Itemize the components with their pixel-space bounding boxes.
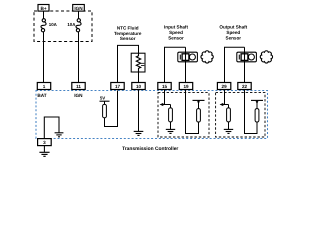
wire NTC to pin 10 — [138, 72, 140, 83]
pin 15 — [158, 83, 171, 90]
wire pin 10 to internal ground — [138, 90, 140, 132]
pin 1 — [37, 83, 50, 90]
speed sensor body — [178, 52, 198, 62]
wire IGN to fuse F2 — [78, 11, 80, 19]
fuse box (dashed) — [34, 11, 92, 42]
NTC thermistor zigzag — [136, 53, 140, 72]
pin 17 — [111, 83, 124, 90]
internal rail T-bar with arrow (output) — [251, 99, 263, 101]
label NTC Fluid Temperature Sensor — [114, 25, 142, 41]
pin 22 — [238, 83, 251, 90]
wire pin into controller (input -) — [186, 90, 199, 134]
wire resistor to ground (input) — [170, 122, 172, 129]
wire sensor element down to pin — [244, 47, 246, 82]
wire sensor element down to pin — [185, 47, 187, 82]
wire pin into controller (output +) — [224, 90, 226, 105]
fuse F2 10A — [76, 19, 81, 32]
svg-text:10: 10 — [136, 84, 142, 89]
pin 11 — [72, 83, 85, 90]
svg-text:3: 3 — [43, 140, 46, 145]
wire tap to load resistor (input) — [170, 105, 172, 109]
internal rail T-bar with arrow (input) — [193, 99, 205, 101]
svg-text:Temperature: Temperature — [114, 31, 142, 36]
external chassis ground — [39, 152, 49, 156]
svg-text:Output Shaft: Output Shaft — [219, 25, 247, 30]
svg-text:29: 29 — [222, 84, 228, 89]
internal ground (pin 10) — [134, 131, 144, 135]
svg-text:19: 19 — [183, 84, 189, 89]
svg-text:IGN: IGN — [74, 6, 83, 11]
svg-text:10A: 10A — [49, 22, 58, 27]
wire pin into controller (input +) — [164, 90, 166, 105]
svg-text:B+: B+ — [40, 6, 46, 11]
svg-text:Sensor: Sensor — [226, 36, 242, 41]
NTC sensor body — [131, 53, 145, 72]
signal tap arrow (input) — [160, 104, 170, 106]
svg-text:22: 22 — [242, 84, 248, 89]
svg-text:BAT: BAT — [37, 93, 46, 98]
label Output Shaft Speed Sensor — [219, 25, 247, 41]
5V supply rail bar — [100, 100, 110, 102]
signal tap arrow (output) — [220, 104, 228, 106]
bias resistor (input) — [197, 109, 201, 122]
interface box output (dashed) — [216, 93, 265, 137]
svg-text:Input Shaft: Input Shaft — [164, 25, 188, 30]
NTC temperature marking — [141, 63, 144, 65]
internal ground (pin 3) — [55, 133, 64, 137]
wire pin 3 to external ground — [43, 146, 45, 152]
pin 10 — [132, 83, 145, 90]
reluctor gear — [260, 51, 272, 63]
pin 19 — [179, 83, 192, 90]
svg-text:Sensor: Sensor — [168, 36, 184, 41]
wire fuse F1 to pin 1 — [43, 32, 45, 83]
svg-text:1: 1 — [43, 84, 46, 89]
svg-text:15: 15 — [162, 84, 168, 89]
internal ground (output) — [224, 129, 233, 133]
pin 29 — [217, 83, 230, 90]
svg-text:Sensor: Sensor — [120, 36, 136, 41]
svg-text:Transmission Controller: Transmission Controller — [122, 146, 178, 152]
svg-text:5V: 5V — [100, 96, 105, 101]
internal ground (input) — [166, 129, 175, 133]
wire fuse F2 to pin 11 — [78, 32, 80, 83]
reluctor gear — [201, 51, 213, 63]
svg-text:10A: 10A — [67, 22, 76, 27]
svg-text:17: 17 — [115, 84, 121, 89]
svg-text:11: 11 — [76, 84, 81, 89]
pin 3 — [38, 139, 52, 146]
5V pull-up resistor — [103, 104, 107, 117]
label Input Shaft Speed Sensor — [164, 25, 188, 41]
load resistor (input) — [169, 108, 173, 122]
interface box input (dashed) — [158, 93, 209, 137]
wire 5V resistor to pin 17 — [105, 91, 118, 127]
bias resistor (output) — [255, 109, 259, 122]
speed sensor body — [237, 52, 257, 62]
svg-text:NTC Fluid: NTC Fluid — [117, 25, 139, 30]
wire 224.5 up over to sensor — [225, 47, 245, 82]
fuse F1 10A — [41, 19, 46, 32]
wire pin into controller (output -) — [245, 90, 258, 134]
load resistor (output) — [227, 108, 231, 122]
svg-text:Speed: Speed — [226, 30, 240, 35]
terminal B+ — [38, 5, 49, 12]
wire pin 17 up to NTC — [118, 45, 139, 82]
transmission controller box (dashed blue) — [36, 91, 268, 139]
wire resistor to rail (input) — [198, 100, 200, 108]
svg-text:Speed: Speed — [169, 30, 183, 35]
wire resistor to rail (output) — [256, 100, 258, 108]
wire 164.5 up over to sensor — [165, 47, 186, 82]
wire pin 3 to internal ground hook — [44, 117, 59, 139]
wire tap to load resistor (output) — [228, 105, 230, 109]
wire B+ to fuse F1 — [43, 11, 45, 19]
terminal IGN — [73, 5, 85, 12]
svg-text:IGN: IGN — [74, 93, 83, 98]
wire resistor to ground (output) — [228, 122, 230, 129]
